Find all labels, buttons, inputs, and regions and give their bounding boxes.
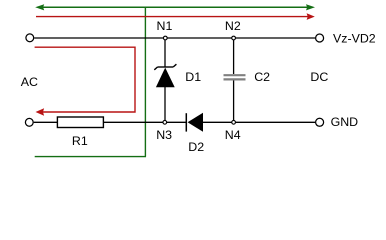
label Vz-VD2 — [333, 32, 376, 46]
wire bottom rail D2 to GND — [203, 121, 315, 123]
diode D2 — [186, 113, 203, 132]
Vz-VD2 terminal — [316, 34, 324, 42]
GND terminal — [316, 118, 324, 126]
AC terminal top — [26, 34, 34, 42]
svg-text:GND: GND — [331, 115, 359, 129]
svg-text:Vz-VD2: Vz-VD2 — [333, 32, 376, 46]
label N2 — [225, 19, 241, 33]
label N1 — [157, 19, 173, 33]
green region border bottom edge — [35, 156, 146, 158]
wire D1 branch top — [164, 38, 166, 67]
node N2 — [232, 36, 236, 40]
label C2 — [254, 70, 270, 84]
red current path (loop with left arrow) — [35, 47, 135, 116]
AC terminal bottom — [25, 118, 33, 126]
svg-text:N1: N1 — [157, 19, 173, 33]
wire bottom rail R1 to D2 — [103, 121, 186, 123]
label D1 — [185, 70, 201, 84]
label DC — [310, 70, 328, 84]
zener diode D1 — [154, 64, 176, 87]
wire C2 branch bottom — [233, 80, 235, 122]
svg-text:C2: C2 — [254, 70, 270, 84]
label D2 — [188, 140, 204, 154]
svg-text:DC: DC — [310, 70, 328, 84]
svg-text:D1: D1 — [185, 70, 201, 84]
wire D1 branch bottom — [164, 87, 166, 123]
green double-headed arrow (top) — [35, 4, 315, 10]
svg-text:AC: AC — [21, 75, 38, 89]
svg-text:N4: N4 — [225, 128, 241, 142]
node N3 — [163, 120, 167, 124]
capacitor C2 — [224, 75, 246, 79]
node N1 — [163, 36, 167, 40]
label N3 — [156, 128, 172, 142]
svg-text:N3: N3 — [156, 128, 172, 142]
svg-text:R1: R1 — [72, 134, 88, 148]
wire top rail — [34, 37, 315, 39]
label N4 — [225, 128, 241, 142]
resistor R1 — [57, 117, 103, 128]
green region border right edge — [144, 7, 146, 156]
svg-text:D2: D2 — [188, 140, 204, 154]
label R1 — [72, 134, 88, 148]
wire bottom rail left of R1 — [34, 121, 58, 123]
svg-text:N2: N2 — [225, 19, 241, 33]
node N4 — [232, 120, 236, 124]
label GND — [331, 115, 359, 129]
red current arrow (top, pointing right) — [36, 13, 315, 20]
label AC — [21, 75, 38, 89]
wire C2 branch top — [233, 38, 235, 74]
